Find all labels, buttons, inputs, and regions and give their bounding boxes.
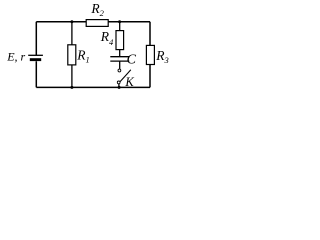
resistor R1 [68, 22, 76, 88]
node top R4 junction [118, 20, 121, 23]
capacitor C [110, 50, 129, 70]
svg-text:R2: R2 [90, 1, 104, 18]
battery E,r [28, 55, 43, 61]
node bottom K junction [118, 86, 121, 89]
svg-text:R4: R4 [100, 29, 114, 47]
wire bottom [36, 86, 150, 88]
svg-text:R1: R1 [76, 48, 90, 65]
resistor R2 [86, 20, 108, 27]
wire right [149, 22, 151, 88]
wire top [36, 21, 150, 23]
svg-text:K: K [124, 75, 134, 89]
node top R1 junction [70, 20, 73, 23]
svg-text:R3: R3 [155, 48, 169, 65]
svg-text:E, r: E, r [6, 49, 25, 63]
wire left [35, 22, 37, 88]
svg-text:C: C [127, 53, 137, 68]
node bottom R1 junction [70, 86, 73, 89]
switch K [117, 69, 131, 87]
resistor R3 [146, 45, 154, 64]
resistor R4 [116, 22, 124, 50]
